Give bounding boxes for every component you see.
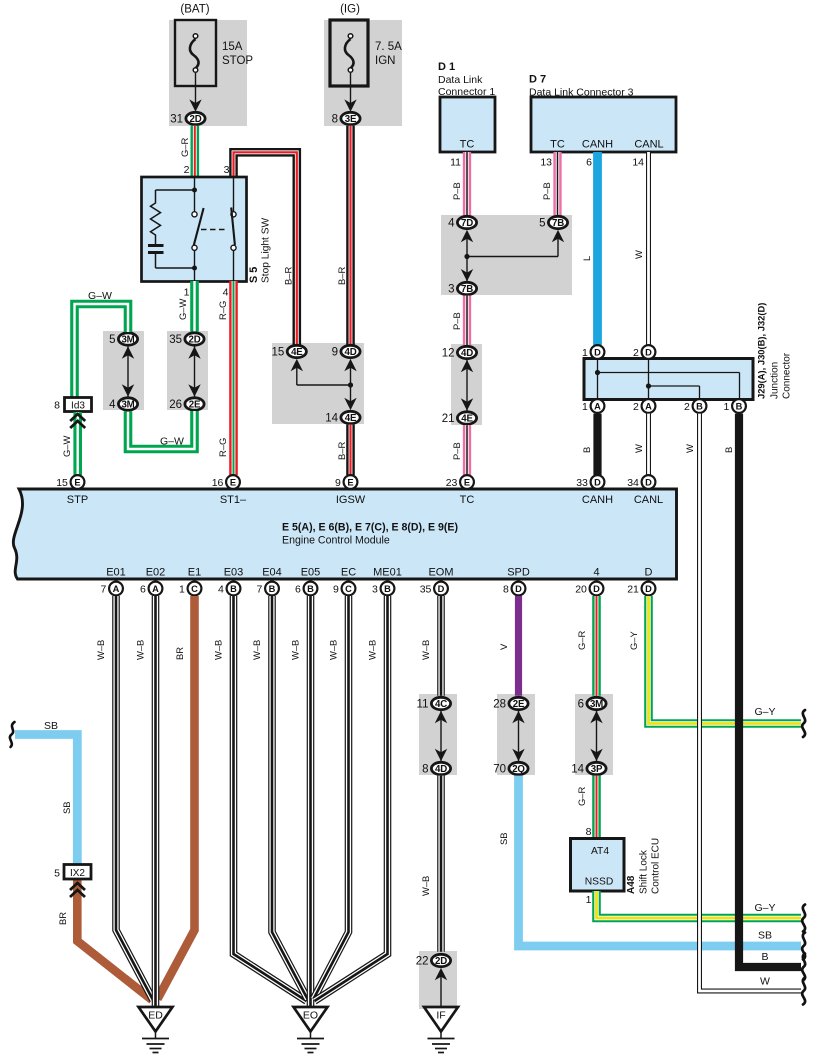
svg-text:B: B	[736, 401, 743, 411]
svg-text:W: W	[760, 976, 770, 988]
svg-text:1: 1	[179, 583, 185, 595]
svg-text:SPD: SPD	[507, 567, 530, 579]
svg-text:8: 8	[422, 764, 428, 776]
svg-text:SB: SB	[44, 720, 58, 732]
ECM pin 7 A E01	[109, 582, 123, 596]
shaded background (3M/3P pair)	[575, 694, 613, 775]
svg-text:V: V	[498, 643, 509, 650]
svg-text:P–B: P–B	[451, 442, 462, 460]
connector 35 2D	[185, 333, 204, 345]
svg-text:6: 6	[586, 157, 592, 169]
connector 5 3M	[118, 333, 137, 345]
wire P-B 4E to ECM TC	[463, 425, 471, 475]
connector 8 4D	[431, 762, 450, 774]
ECM pin 33 D CANH	[591, 475, 605, 489]
connector 4 3M	[118, 398, 137, 410]
arrow into 2D and lead to IF ground	[440, 973, 442, 1007]
connector 6 3M	[587, 697, 606, 709]
svg-text:ED: ED	[148, 1010, 163, 1022]
svg-text:4E: 4E	[291, 347, 303, 358]
shaded background (4D/4E pair on TC line)	[451, 344, 482, 425]
wire B junction 1B down	[739, 414, 801, 967]
connector 9 4D	[341, 345, 360, 357]
capacitor inside S5	[148, 244, 164, 247]
svg-text:D: D	[645, 567, 653, 579]
wire G-R 3P to AT4	[592, 776, 601, 839]
junction pin 1 B	[732, 399, 746, 413]
svg-text:W–B: W–B	[251, 640, 262, 660]
wire fuse IG to connector 3E	[350, 73, 352, 108]
svg-text:4D: 4D	[435, 764, 447, 775]
svg-text:P–B: P–B	[451, 182, 462, 200]
svg-text:E02: E02	[146, 567, 166, 579]
shaded background (2D/2E connector pair)	[167, 331, 208, 410]
svg-text:7: 7	[257, 583, 263, 595]
svg-text:IX2: IX2	[70, 868, 85, 879]
svg-text:BR: BR	[57, 912, 68, 925]
wire W-B ECM EOM to 4C	[437, 596, 445, 696]
wire BR IX2 to ED ground	[77, 879, 152, 1000]
connector 3 7B	[457, 282, 476, 294]
ECM pin 9 C EC	[342, 582, 356, 596]
switch contact right inside S5	[233, 177, 235, 212]
svg-text:E01: E01	[106, 567, 126, 579]
shaded background (4C/4D pair on EOM line)	[419, 694, 457, 775]
wire P-B D1 TC to 7D	[463, 152, 471, 216]
svg-text:NSSD: NSSD	[585, 877, 614, 888]
shaded background (4E/4D connector group)	[272, 343, 364, 424]
wire G-Y AT4 NSSD to right edge	[597, 891, 802, 918]
svg-text:14: 14	[632, 157, 644, 169]
svg-text:22: 22	[416, 956, 429, 968]
svg-text:S 5: S 5	[248, 267, 260, 283]
svg-text:11: 11	[417, 699, 429, 711]
ECM pin 3 B ME01	[381, 582, 395, 596]
ECM pin 16 E ST1-	[226, 475, 240, 489]
svg-text:5: 5	[54, 868, 60, 880]
ECM pin 4 B E03	[227, 582, 241, 596]
svg-text:2Q: 2Q	[512, 764, 525, 775]
svg-text:E04: E04	[262, 567, 282, 579]
svg-text:STP: STP	[67, 494, 88, 506]
svg-text:E: E	[230, 477, 236, 487]
svg-text:D: D	[594, 347, 601, 357]
svg-text:E: E	[464, 477, 470, 487]
svg-text:ST1–: ST1–	[220, 494, 247, 506]
wire W-B E04 to EO ground	[272, 596, 308, 999]
junction connector J29(A), J30(B), J32(D)	[584, 359, 753, 400]
svg-text:3M: 3M	[590, 699, 603, 710]
svg-text:W–B: W–B	[213, 640, 224, 660]
svg-text:J29(A), J30(B), J32(D): J29(A), J30(B), J32(D)	[756, 303, 767, 399]
svg-text:4E: 4E	[345, 413, 357, 424]
svg-text:W–B: W–B	[420, 640, 431, 660]
wire W-B E01 to ED ground	[116, 596, 153, 1000]
svg-text:4D: 4D	[345, 347, 357, 358]
svg-text:BR: BR	[174, 647, 185, 660]
ECU E5-E9 Engine Control Module	[13, 489, 676, 579]
svg-text:W–B: W–B	[290, 640, 301, 660]
svg-text:W–B: W–B	[135, 640, 146, 660]
svg-text:D: D	[438, 584, 445, 594]
svg-text:A: A	[113, 584, 120, 594]
wire SB 2Q to right edge	[519, 776, 802, 946]
connector 31 2D	[186, 112, 205, 124]
svg-text:5: 5	[539, 218, 545, 230]
ECM pin 21 D pin D	[642, 582, 656, 596]
svg-text:W–B: W–B	[420, 876, 431, 896]
svg-text:G–Y: G–Y	[628, 630, 639, 650]
svg-text:G–W: G–W	[61, 435, 72, 457]
svg-text:15: 15	[56, 477, 68, 489]
svg-text:8: 8	[332, 114, 338, 126]
svg-text:1: 1	[184, 287, 190, 299]
svg-text:20: 20	[575, 583, 587, 595]
svg-text:23: 23	[446, 477, 458, 489]
svg-text:L: L	[581, 256, 592, 261]
switch contact left inside S5	[194, 177, 196, 212]
connector 4 7D	[457, 216, 476, 228]
svg-text:CANL: CANL	[634, 494, 663, 506]
junction pin 1 D	[591, 345, 605, 359]
svg-text:Junction: Junction	[770, 362, 781, 399]
svg-text:Shift Lock: Shift Lock	[639, 849, 650, 894]
svg-text:2E: 2E	[513, 699, 525, 710]
fuse (BAT) 15A STOP	[175, 20, 216, 86]
svg-text:G–Y: G–Y	[754, 706, 775, 718]
svg-text:15A: 15A	[222, 41, 243, 53]
junction pin 1 A	[591, 399, 605, 413]
svg-text:9: 9	[333, 583, 339, 595]
svg-text:13: 13	[540, 157, 552, 169]
pair link 2E-2Q	[518, 711, 520, 762]
svg-text:A48: A48	[626, 875, 637, 894]
wire P-B D7 TC to 7B	[553, 152, 561, 216]
svg-text:EC: EC	[341, 567, 356, 579]
svg-text:11: 11	[450, 157, 461, 169]
shaded background (BAT fuse area)	[169, 20, 247, 126]
svg-text:4C: 4C	[435, 699, 447, 710]
svg-text:6: 6	[140, 583, 146, 595]
svg-text:Data Link: Data Link	[438, 74, 483, 86]
connector 28 2E	[509, 697, 528, 709]
svg-text:21: 21	[442, 413, 455, 425]
connector 14 4E	[341, 411, 360, 423]
svg-text:4: 4	[223, 287, 229, 299]
svg-text:2D: 2D	[190, 114, 202, 125]
svg-text:Control ECU: Control ECU	[651, 838, 662, 894]
svg-text:E: E	[347, 477, 353, 487]
svg-text:IF: IF	[436, 1010, 445, 1022]
svg-text:P–B: P–B	[451, 312, 462, 330]
svg-text:B–R: B–R	[336, 442, 347, 460]
svg-text:16: 16	[212, 477, 224, 489]
svg-text:2E: 2E	[189, 400, 201, 411]
ECM pin 6 A E02	[149, 582, 163, 596]
svg-text:D 1: D 1	[438, 61, 455, 73]
connector 21 4E	[457, 412, 476, 424]
svg-text:1: 1	[586, 894, 592, 906]
svg-text:33: 33	[576, 477, 588, 489]
connector pair link 3M-3M	[127, 346, 129, 397]
svg-text:G–R: G–R	[179, 137, 190, 157]
svg-text:W: W	[633, 250, 644, 259]
wire BR E1 to ED ground	[158, 596, 195, 999]
svg-text:8: 8	[503, 583, 509, 595]
svg-text:D: D	[593, 584, 600, 594]
svg-text:B: B	[723, 447, 734, 453]
svg-text:3E: 3E	[345, 114, 357, 125]
connector pair link 2D-2E	[194, 346, 196, 397]
svg-text:14: 14	[571, 764, 584, 776]
ECM pin 15 E STP	[71, 475, 85, 489]
svg-text:D: D	[645, 584, 652, 594]
dashed link between S5 contacts	[201, 229, 227, 231]
ECM pin 1 C E1	[188, 582, 202, 596]
svg-text:(IG): (IG)	[340, 4, 360, 16]
svg-text:D: D	[645, 477, 652, 487]
ground ED	[139, 1007, 173, 1032]
svg-text:B: B	[581, 447, 592, 453]
switch S5 Stop Light SW	[142, 177, 247, 282]
wire G-R ECM pin4 to 3M	[592, 596, 601, 696]
svg-text:C: C	[191, 584, 198, 594]
connector 70 2Q	[509, 762, 528, 774]
svg-text:SB: SB	[498, 832, 509, 845]
wire fuse BAT to connector 2D	[195, 73, 197, 108]
svg-text:Connector: Connector	[782, 352, 793, 399]
svg-text:A: A	[645, 401, 652, 411]
wire B-R 4E to ECM IGSW	[346, 425, 355, 475]
svg-text:5: 5	[109, 334, 115, 346]
ground IF	[424, 1007, 458, 1032]
svg-text:AT4: AT4	[591, 846, 609, 857]
shield chevrons below Id3	[70, 414, 85, 421]
wire W junction 2A to ECM CANL	[646, 414, 651, 475]
connector 5 7B	[548, 216, 567, 228]
svg-text:G–W: G–W	[160, 436, 184, 448]
svg-text:G–W: G–W	[177, 298, 188, 320]
connector 26 2E	[185, 398, 204, 410]
wire G-W S5 pin1 to connector 2D	[190, 281, 199, 332]
svg-text:A: A	[152, 584, 159, 594]
wire W-B E02 to ED ground	[152, 596, 160, 1007]
svg-text:14: 14	[325, 413, 338, 425]
svg-text:B: B	[269, 584, 276, 594]
ECM pin 9 E IGSW	[344, 475, 358, 489]
svg-text:21: 21	[627, 583, 639, 595]
ECM pin 20 D pin 4	[590, 582, 604, 596]
svg-text:3: 3	[372, 583, 378, 595]
svg-text:35: 35	[420, 583, 432, 595]
svg-text:70: 70	[493, 764, 506, 776]
svg-text:4: 4	[448, 218, 455, 230]
connector 15 4E	[287, 345, 306, 357]
svg-text:TC: TC	[550, 139, 565, 151]
shaded background (2D connector at IF ground)	[419, 951, 457, 1009]
svg-text:G–W: G–W	[88, 290, 112, 302]
svg-text:(BAT): (BAT)	[180, 4, 209, 16]
svg-text:IGN: IGN	[375, 55, 395, 67]
wire B-R Stop Light SW pin 3 up and over to 4E	[234, 152, 297, 345]
svg-text:W: W	[633, 444, 644, 453]
svg-text:2: 2	[633, 347, 639, 359]
svg-text:Id3: Id3	[71, 401, 85, 412]
svg-text:P–B: P–B	[541, 182, 552, 200]
wire G-Y ECM pin D to right edge	[649, 596, 802, 724]
svg-text:E05: E05	[301, 567, 321, 579]
connector 12 4D	[457, 346, 476, 358]
svg-text:D 7: D 7	[529, 74, 546, 86]
svg-text:CANH: CANH	[582, 494, 613, 506]
shaded background (7D/7B connector group)	[441, 215, 572, 295]
svg-text:R–G: R–G	[217, 438, 228, 457]
svg-text:2D: 2D	[435, 956, 447, 967]
svg-text:B–R: B–R	[283, 267, 294, 285]
svg-text:4E: 4E	[461, 414, 473, 425]
svg-text:G–R: G–R	[576, 630, 587, 650]
svg-text:3P: 3P	[591, 764, 603, 775]
svg-text:TC: TC	[460, 494, 475, 506]
resistor inside S5	[151, 190, 161, 237]
ECM pin 35 D EOM	[434, 582, 448, 596]
svg-text:B: B	[761, 951, 768, 963]
svg-text:26: 26	[169, 399, 182, 411]
svg-text:6: 6	[578, 699, 584, 711]
splice Id3	[65, 398, 92, 412]
svg-text:3M: 3M	[121, 400, 134, 411]
svg-text:6: 6	[295, 583, 301, 595]
wire G-W 2E down-left to 3M	[128, 411, 195, 449]
svg-text:2: 2	[684, 401, 690, 413]
wire G-W 3M up-left down to Id3	[75, 304, 129, 398]
svg-text:G–Y: G–Y	[754, 902, 775, 914]
svg-text:R–G: R–G	[217, 301, 228, 320]
ECM pin 23 E TC	[460, 475, 474, 489]
svg-text:3: 3	[224, 164, 230, 176]
svg-text:CANH: CANH	[582, 139, 613, 151]
svg-text:W–B: W–B	[328, 640, 339, 660]
connector 8 3E	[341, 112, 360, 124]
svg-text:A: A	[594, 401, 601, 411]
wire G-W Id3 to ECM STP	[73, 412, 82, 475]
svg-text:SB: SB	[758, 930, 772, 942]
svg-text:2D: 2D	[189, 335, 201, 346]
svg-text:1: 1	[724, 401, 730, 413]
wire W D7 CANL to junction 2D	[646, 152, 651, 345]
svg-text:4: 4	[593, 567, 599, 579]
svg-text:G–R: G–R	[576, 786, 587, 806]
connector 14 3P	[587, 762, 606, 774]
wire B-R fuse IG to 4D	[346, 126, 355, 345]
ECM pin 8 D SPD	[512, 582, 526, 596]
svg-text:STOP: STOP	[222, 55, 253, 67]
connector 22 2D	[431, 954, 450, 966]
svg-text:2: 2	[184, 164, 190, 176]
wire R-G S5 pin4 to ECM ST1-	[229, 281, 238, 475]
svg-text:7D: 7D	[461, 218, 473, 229]
svg-text:W: W	[684, 444, 695, 453]
svg-text:SB: SB	[61, 801, 72, 814]
junction pin 2 B	[693, 399, 707, 413]
svg-text:B: B	[696, 401, 703, 411]
svg-text:1: 1	[582, 347, 588, 359]
svg-text:B: B	[307, 584, 314, 594]
wire W-B E03 to EO ground	[234, 596, 307, 1001]
ECU A48 Shift Lock Control ECU AT4/NSSD	[571, 839, 625, 892]
wire V ECM SPD to 2E	[515, 596, 522, 696]
svg-text:35: 35	[169, 334, 182, 346]
svg-text:15: 15	[272, 347, 285, 359]
wire W junction 2B down	[700, 414, 802, 991]
svg-text:IGSW: IGSW	[336, 494, 366, 506]
wire P-B 7B to 4D	[463, 296, 471, 345]
shaded background (IG fuse area)	[324, 20, 402, 126]
svg-text:E1: E1	[188, 567, 201, 579]
wire SB from left edge to IX2	[15, 735, 77, 866]
wire L D7 CANH to junction 1D	[593, 152, 602, 345]
svg-text:34: 34	[627, 477, 639, 489]
wire W-B E05 to EO ground	[307, 596, 315, 1007]
svg-text:B–R: B–R	[336, 267, 347, 285]
ECM pin 6 B E05	[304, 582, 318, 596]
shaded background (3M connector pair)	[103, 331, 144, 410]
junction pin 2 D	[642, 345, 656, 359]
svg-text:7B: 7B	[552, 218, 564, 229]
svg-text:12: 12	[442, 348, 455, 360]
wire W-B 4D to 2D	[437, 776, 445, 952]
svg-text:7. 5A: 7. 5A	[375, 41, 402, 53]
svg-text:1: 1	[582, 401, 588, 413]
svg-text:E03: E03	[224, 567, 244, 579]
svg-text:7: 7	[101, 583, 107, 595]
svg-text:31: 31	[170, 114, 183, 126]
svg-text:TC: TC	[460, 139, 475, 151]
continuation curl left SB	[10, 722, 15, 747]
svg-text:9: 9	[335, 477, 341, 489]
ECM pin 34 D CANL	[642, 475, 656, 489]
svg-text:CANL: CANL	[634, 139, 663, 151]
svg-text:D: D	[645, 347, 652, 357]
svg-text:4: 4	[109, 399, 116, 411]
svg-text:3M: 3M	[121, 335, 134, 346]
wire G-R fuse BAT to Stop Light SW pin 2	[191, 126, 200, 177]
svg-text:28: 28	[493, 699, 506, 711]
svg-text:EO: EO	[303, 1010, 318, 1022]
svg-text:D: D	[594, 477, 601, 487]
svg-text:Stop Light SW: Stop Light SW	[261, 217, 272, 283]
svg-text:4D: 4D	[461, 348, 473, 359]
junction pin 2 A	[642, 399, 656, 413]
wire W-B ME01 to EO ground	[315, 596, 388, 1001]
svg-text:B: B	[384, 584, 391, 594]
svg-text:2: 2	[633, 401, 639, 413]
svg-text:C: C	[345, 584, 352, 594]
svg-text:EOM: EOM	[428, 567, 453, 579]
pair link 4D-4E	[466, 360, 468, 412]
svg-text:9: 9	[332, 347, 338, 359]
svg-text:B: B	[230, 584, 237, 594]
shield chevrons below IX2	[70, 883, 85, 890]
svg-text:7B: 7B	[461, 284, 473, 295]
svg-text:4: 4	[218, 583, 224, 595]
link lines 4E/4D to 14 4E	[291, 359, 303, 371]
pair link 4C-4D	[440, 711, 442, 762]
svg-text:W–B: W–B	[95, 640, 106, 660]
shaded background (2E/2Q pair on SPD line)	[497, 694, 535, 775]
fuse (IG) 7.5A IGN	[330, 20, 368, 86]
svg-text:ME01: ME01	[373, 567, 402, 579]
